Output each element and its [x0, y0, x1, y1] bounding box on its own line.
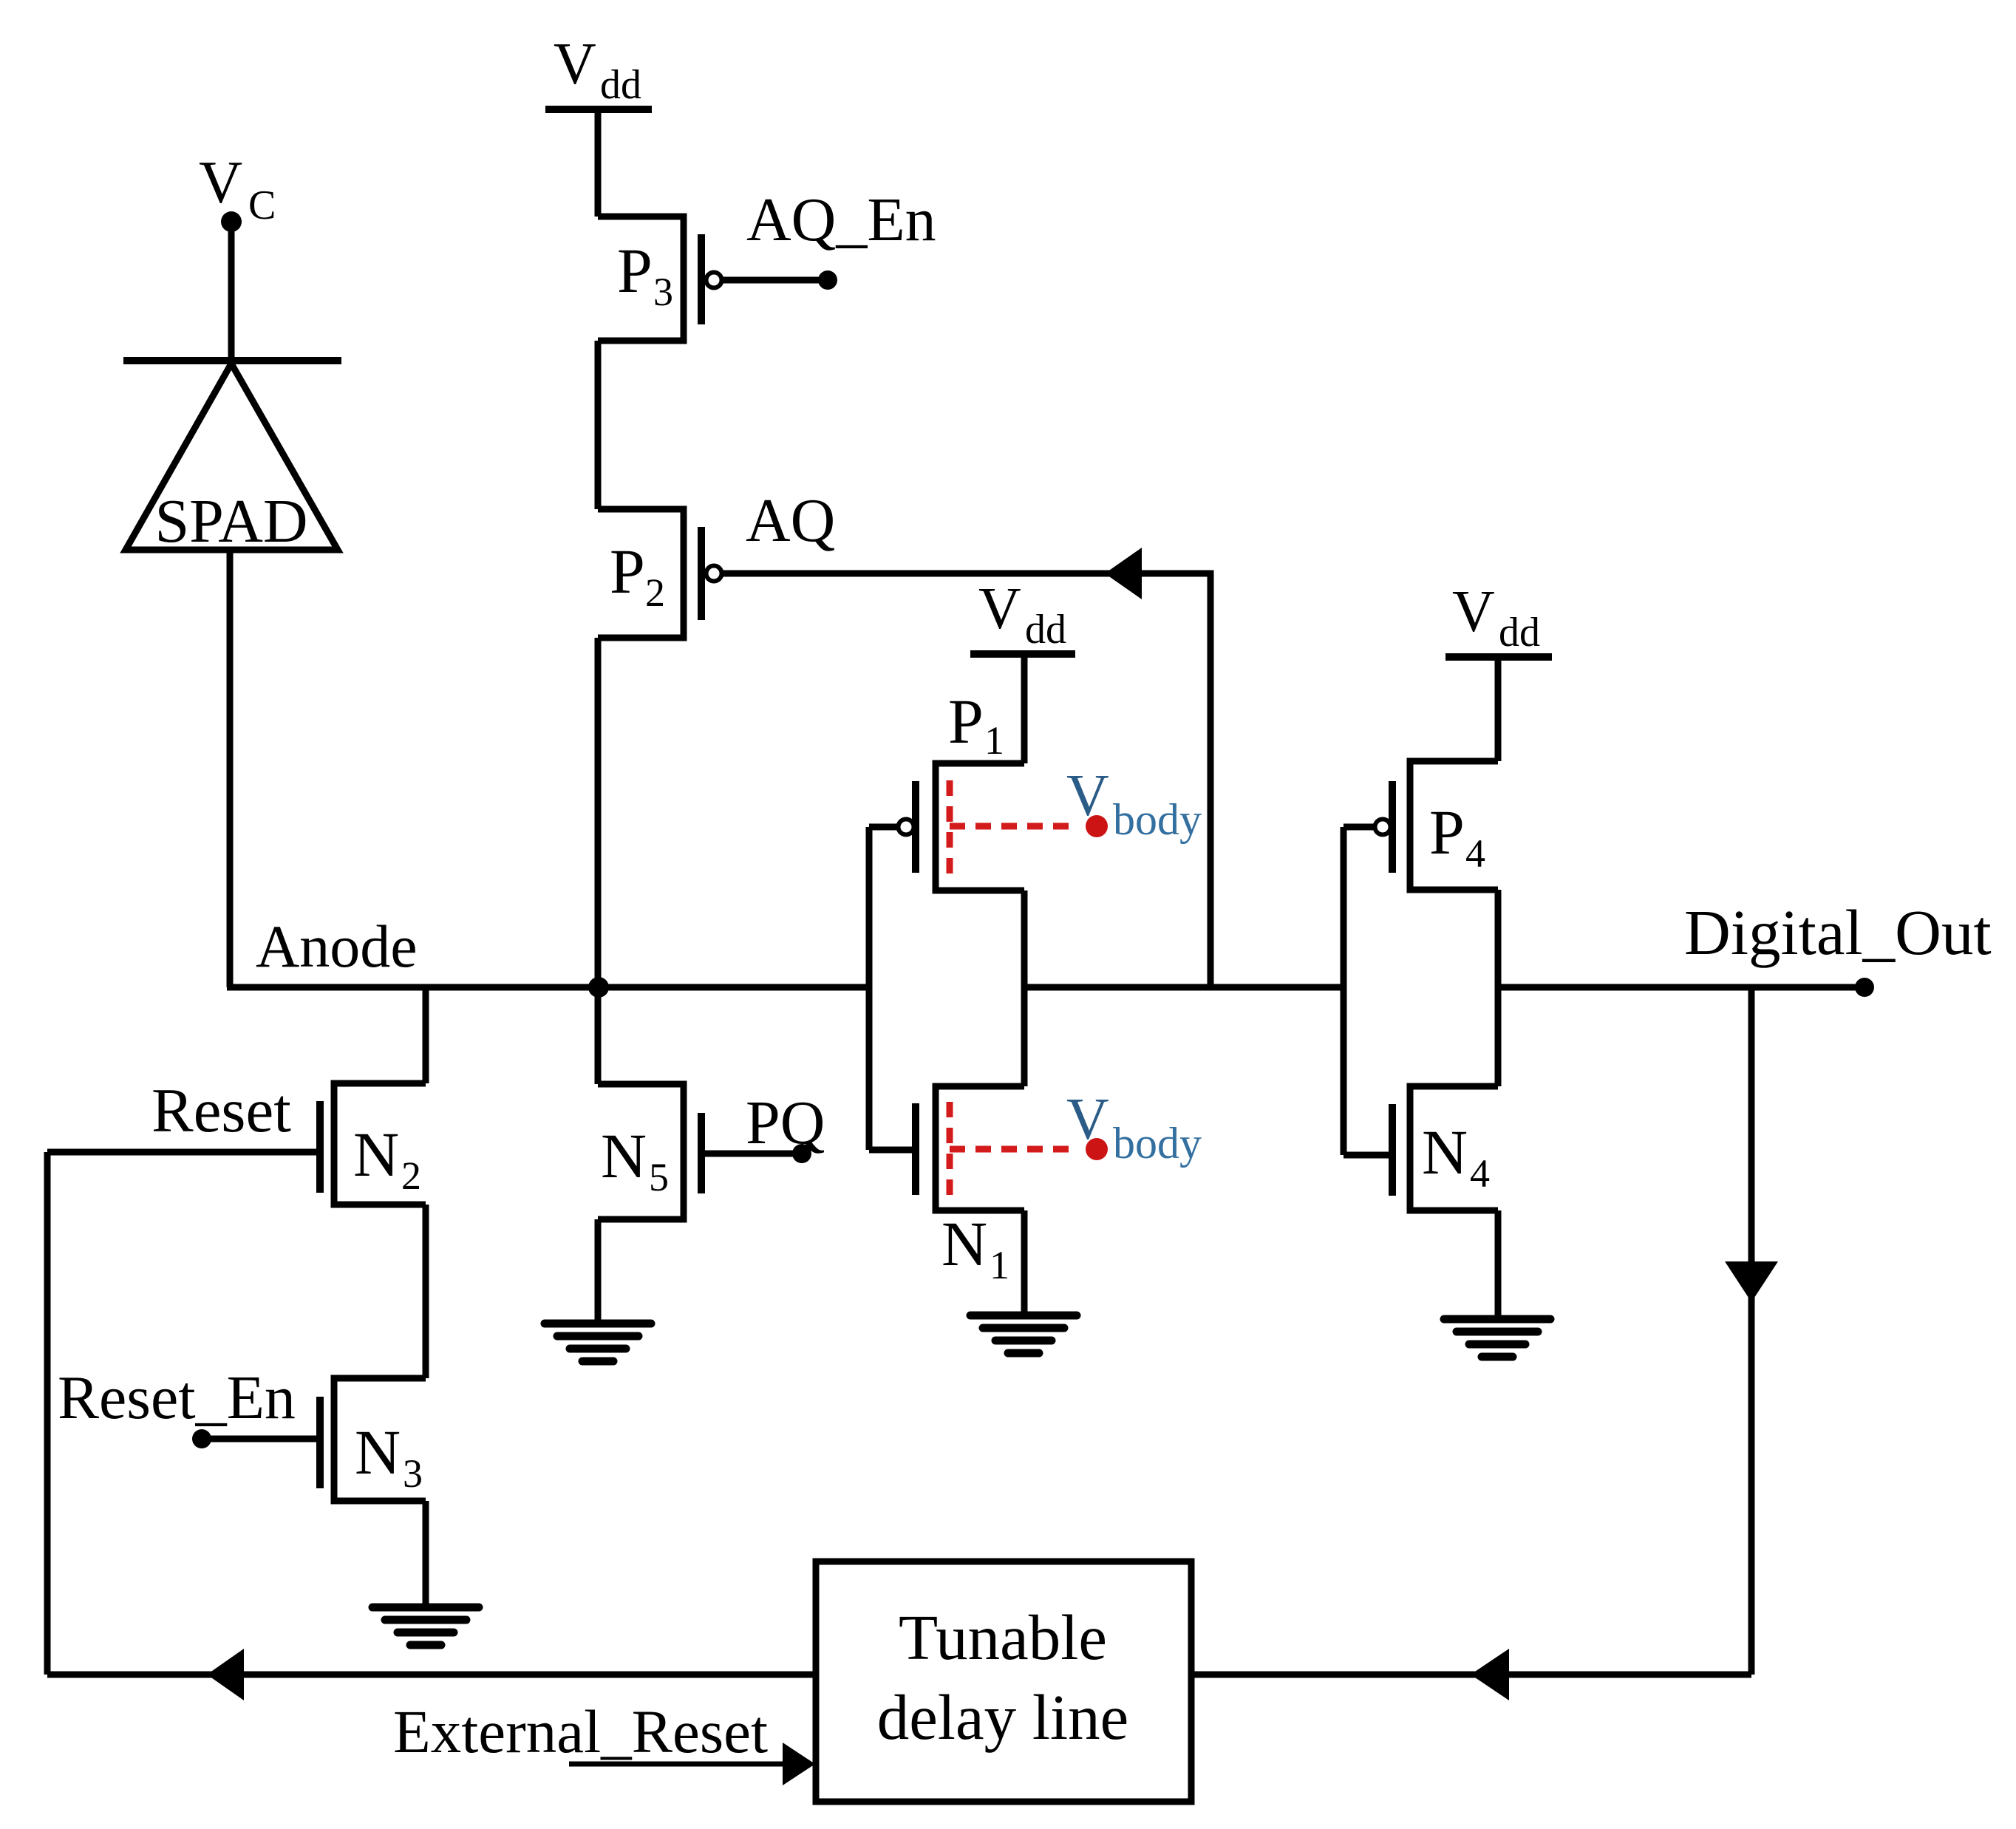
- transistor N3 (drain/channel/source): [334, 1378, 426, 1501]
- wire inverter1 gate lead and vertical gate net: [869, 827, 897, 1150]
- wire inverter2 output to Digital_Out: [1498, 984, 1865, 991]
- wire N3 source to ground: [423, 1501, 429, 1605]
- transistor P2 gate bubble: [706, 566, 722, 582]
- transistor N1 (drain/channel/source): [936, 1086, 1024, 1210]
- svg-text:5: 5: [649, 1155, 669, 1199]
- ground (N4): [1444, 1319, 1550, 1357]
- svg-text:body: body: [1113, 795, 1202, 844]
- wire N1 source to ground: [1021, 1210, 1028, 1313]
- svg-text:3: 3: [403, 1451, 423, 1496]
- svg-text:Digital_Out: Digital_Out: [1684, 896, 1992, 968]
- wire inverter2 gate lead and vertical gate net: [1344, 827, 1374, 1155]
- wire inverter1 output to inverter2 gate: [1024, 984, 1344, 991]
- SPAD cathode bar: [123, 357, 341, 364]
- transistor P2 gate bar: [698, 527, 705, 620]
- transistor P1 gate bar: [912, 781, 919, 873]
- arrowhead on AQ wire pointing left: [1105, 548, 1142, 599]
- transistor N5 gate bar: [698, 1113, 705, 1193]
- svg-text:Anode: Anode: [256, 913, 418, 980]
- red body dot (P1): [1086, 815, 1108, 837]
- arrowhead External_Reset pointing right: [783, 1743, 815, 1785]
- svg-text:1: 1: [984, 718, 1004, 763]
- node AQ_En terminal dot: [818, 270, 837, 290]
- node Digital_Out terminal dot: [1855, 978, 1874, 997]
- transistor N2 (drain/channel/source): [334, 1083, 426, 1205]
- transistor N5 (drain/channel/source): [598, 1084, 684, 1219]
- wire N5 source to ground: [595, 1219, 602, 1321]
- ground (N5): [545, 1324, 651, 1361]
- net label V_body (P1): [1066, 763, 1202, 844]
- wire inverter2 output column: [1495, 890, 1502, 1086]
- svg-text:4: 4: [1465, 831, 1485, 876]
- label N5: [601, 1120, 669, 1199]
- ground (N3): [372, 1607, 479, 1645]
- wire P2 drain to node line: [595, 638, 602, 987]
- svg-text:AQ: AQ: [746, 486, 835, 555]
- svg-text:P: P: [610, 536, 645, 607]
- red body dot (N1): [1086, 1138, 1108, 1160]
- label N3: [355, 1417, 423, 1496]
- wire SPAD anode down to node line: [227, 550, 234, 987]
- svg-text:SPAD: SPAD: [154, 487, 307, 556]
- transistor P4 (source/channel/drain): [1410, 761, 1498, 890]
- svg-text:dd: dd: [600, 62, 641, 108]
- transistor P1 gate bubble: [899, 820, 914, 835]
- wire node to N2 drain: [423, 987, 429, 1083]
- svg-text:P: P: [1429, 797, 1465, 868]
- label N4: [1422, 1117, 1490, 1196]
- svg-text:PQ: PQ: [746, 1089, 825, 1157]
- svg-text:N: N: [941, 1208, 987, 1279]
- svg-text:N: N: [1422, 1117, 1468, 1188]
- block Tunable delay line box: [816, 1561, 1191, 1802]
- wire PQ gate lead: [701, 1151, 800, 1157]
- wire node Anode horizontal segment: [227, 984, 869, 991]
- transistor P3 gate bar: [698, 234, 705, 324]
- label P2: [610, 536, 665, 615]
- svg-text:External_Reset: External_Reset: [393, 1697, 768, 1765]
- svg-text:V: V: [554, 32, 596, 97]
- svg-text:V: V: [1452, 579, 1495, 644]
- node PQ terminal dot: [792, 1144, 811, 1163]
- label N2: [353, 1119, 421, 1198]
- wire V_C to SPAD cathode: [228, 222, 235, 361]
- transistor P4 gate bar: [1389, 781, 1396, 873]
- wire Reset_En gate lead: [202, 1436, 320, 1443]
- svg-text:dd: dd: [1499, 610, 1540, 655]
- transistor P2 (source/channel/drain): [598, 509, 684, 638]
- svg-text:P: P: [948, 686, 984, 757]
- svg-text:N: N: [355, 1417, 401, 1488]
- red dashed body tie of N1: [950, 1102, 1077, 1197]
- svg-text:N: N: [601, 1120, 647, 1191]
- wire feedback bottom-left from delay line to Reset: [47, 1672, 816, 1678]
- transistor P1 (source/channel/drain): [936, 763, 1024, 890]
- svg-text:Reset: Reset: [151, 1076, 291, 1145]
- transistor P4 gate bubble: [1375, 820, 1391, 835]
- arrowhead on feedback wire pointing left: [207, 1649, 244, 1700]
- svg-text:V: V: [199, 149, 242, 216]
- svg-text:dd: dd: [1025, 607, 1066, 653]
- transistor P3 (source/channel/drain): [598, 217, 684, 341]
- label P3: [617, 235, 673, 314]
- wire AQ feedback from P2 gate to node line: [723, 573, 1210, 987]
- svg-text:1: 1: [990, 1243, 1009, 1287]
- net label V_body (N1): [1066, 1087, 1202, 1168]
- wire node to N5 drain: [595, 987, 602, 1084]
- transistor N2 gate bar: [316, 1101, 324, 1193]
- svg-text:P: P: [617, 235, 653, 306]
- svg-text:V: V: [1066, 1087, 1109, 1152]
- wire Vdd to P4 source: [1495, 653, 1502, 761]
- wire External_Reset arrow line: [569, 1762, 785, 1767]
- svg-text:N: N: [353, 1119, 399, 1190]
- arrowhead on feedback vertical pointing down: [1725, 1261, 1778, 1302]
- block label Tunable delay line: [877, 1601, 1129, 1753]
- wire Vdd to P1 source: [1021, 650, 1028, 763]
- svg-text:AQ_En: AQ_En: [746, 185, 936, 254]
- svg-text:C: C: [248, 183, 276, 228]
- label N1: [941, 1208, 1009, 1287]
- power Vdd symbol (P4 column): [1445, 579, 1552, 657]
- wire N2 source to N3 drain: [423, 1205, 429, 1378]
- svg-text:3: 3: [653, 270, 673, 314]
- svg-text:V: V: [978, 576, 1021, 641]
- wire N4 source to ground: [1495, 1210, 1502, 1317]
- ground (N1): [970, 1315, 1077, 1353]
- junction dot at Anode/N5 column: [588, 977, 609, 998]
- svg-text:Tunable: Tunable: [899, 1601, 1107, 1673]
- wire N4 gate lead: [1344, 1152, 1392, 1159]
- label P4: [1429, 797, 1485, 876]
- wire Reset vertical down-left: [44, 1152, 51, 1675]
- node V_C label: [199, 149, 276, 228]
- power Vdd symbol (top, P3 column): [545, 32, 652, 109]
- node V_C terminal dot: [221, 211, 242, 232]
- wire P3 drain to P2 source: [595, 341, 602, 509]
- power Vdd symbol (P1 column): [970, 576, 1075, 654]
- red dashed body tie of P1: [950, 780, 1077, 873]
- wire feedback to delay line input: [1191, 1672, 1751, 1678]
- wire N1 gate lead: [869, 1147, 916, 1154]
- svg-text:body: body: [1113, 1119, 1202, 1168]
- svg-text:V: V: [1066, 763, 1109, 828]
- SPAD diode triangle: [126, 364, 338, 550]
- transistor P3 gate bubble: [706, 273, 722, 288]
- svg-text:2: 2: [401, 1154, 421, 1198]
- wire Digital_Out feedback vertical: [1748, 987, 1755, 1675]
- svg-text:delay line: delay line: [877, 1681, 1129, 1753]
- svg-text:2: 2: [645, 571, 665, 615]
- svg-text:Reset_En: Reset_En: [58, 1363, 296, 1432]
- label P1: [948, 686, 1004, 763]
- transistor N1 gate bar: [912, 1103, 919, 1195]
- transistor N3 gate bar: [316, 1397, 324, 1488]
- node Reset_En terminal dot: [192, 1429, 211, 1448]
- wire Vdd to P3 source: [595, 106, 602, 217]
- svg-text:4: 4: [1470, 1151, 1490, 1196]
- wire AQ_En gate lead: [723, 277, 826, 284]
- transistor N4 (drain/channel/source): [1410, 1086, 1498, 1210]
- transistor N4 gate bar: [1389, 1104, 1396, 1196]
- arrowhead on feedback wire pointing left (into delay line): [1471, 1649, 1509, 1700]
- wire Reset gate lead: [47, 1149, 320, 1156]
- wire inverter1 output column: [1021, 890, 1028, 1086]
